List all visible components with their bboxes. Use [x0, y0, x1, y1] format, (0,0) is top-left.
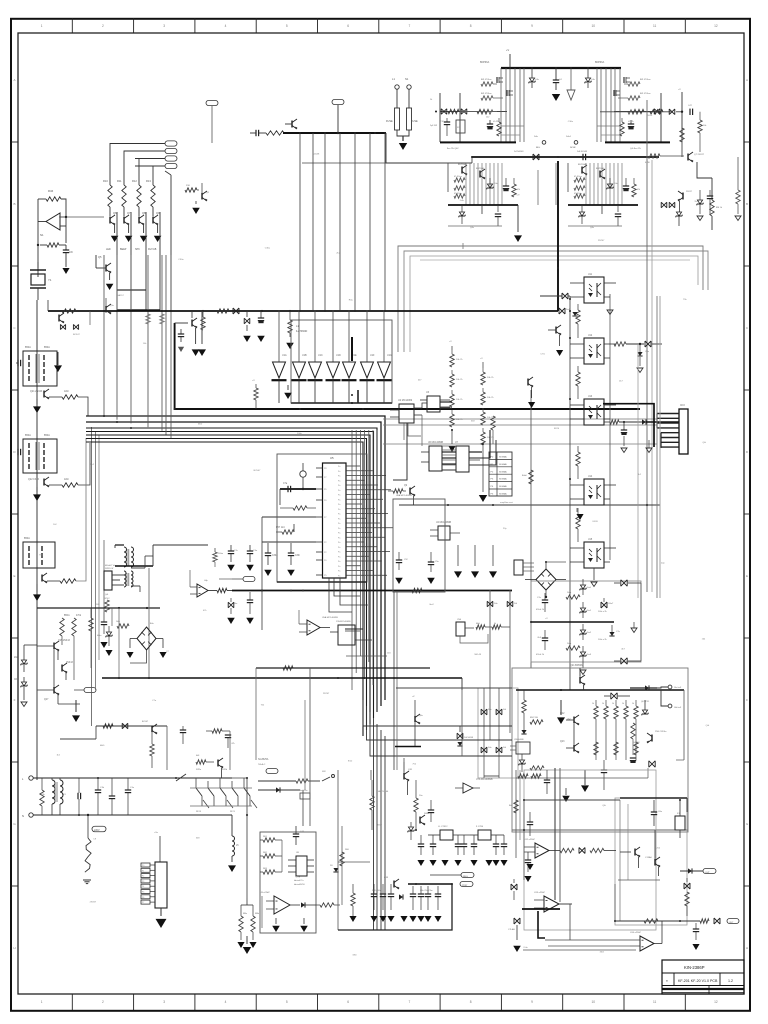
- IC U8b box: [338, 625, 355, 645]
- svg-text:U2 MC14069: U2 MC14069: [398, 399, 413, 402]
- svg-text:CN3: CN3: [680, 405, 685, 407]
- cell2 bottom bus: [448, 204, 518, 206]
- opto4 arrows: [576, 508, 578, 512]
- gnd arrows lower G17: [349, 916, 356, 922]
- bowtie X72: [684, 883, 690, 889]
- cell bottom bus: [451, 141, 516, 143]
- svg-text:10k 7k: 10k 7k: [487, 397, 494, 399]
- svg-text:C7a: C7a: [283, 483, 288, 485]
- transistor Q8: [138, 207, 140, 216]
- open gnd right: [631, 628, 637, 633]
- gate U7A: [463, 783, 473, 793]
- svg-text:SIGNAL: SIGNAL: [499, 470, 508, 473]
- svg-text:B50A: B50A: [24, 537, 30, 540]
- svg-text:8W 47Ohm: 8W 47Ohm: [481, 79, 492, 81]
- resistor RL5: [73, 664, 75, 680]
- ground arrows under drivers: [114, 225, 116, 233]
- top connections G17: [370, 770, 372, 780]
- svg-text:D4t N4148: D4t N4148: [577, 150, 588, 153]
- opto3 cap filled: [623, 422, 625, 430]
- thick bus G17: [408, 883, 452, 885]
- opto5 resistor left: [576, 515, 580, 529]
- svg-text:3: 3: [163, 24, 165, 28]
- svg-text:BDP96A: BDP96A: [458, 163, 466, 166]
- side wire to right block: [386, 133, 430, 163]
- svg-text:U15: U15: [588, 539, 593, 541]
- loop top transistor: [191, 320, 193, 327]
- svg-text:kdvim8 7a: kdvim8 7a: [294, 880, 304, 882]
- left branch resistor: [90, 608, 92, 618]
- cell2 verticals: [465, 163, 467, 205]
- svg-text:C8a C9a C9m: C8a C9a C9m: [420, 890, 433, 892]
- svg-text:2N5 C8V4a: 2N5 C8V4a: [655, 731, 667, 733]
- bowtie X73: [714, 918, 720, 924]
- CN6 lower jog: [460, 634, 488, 643]
- ladder C: [492, 430, 494, 444]
- terminal N: [29, 813, 33, 817]
- svg-text:U13 a22bP: U13 a22bP: [534, 892, 545, 894]
- svg-text:1: 1: [41, 1000, 43, 1004]
- svg-text:10k 7k: 10k 7k: [456, 399, 463, 401]
- connector CN5: [514, 560, 523, 575]
- input wires U14: [570, 939, 630, 941]
- svg-text:B: B: [746, 202, 748, 206]
- cell2 res right: [633, 178, 635, 184]
- svg-text:U13: U13: [588, 396, 593, 398]
- inner verticals G14: [683, 690, 685, 760]
- svg-text:R10: R10: [103, 179, 108, 183]
- svg-text:6: 6: [347, 24, 349, 28]
- svg-text:100r a 2k: 100r a 2k: [598, 638, 608, 641]
- svg-text:N4148: N4148: [633, 742, 640, 744]
- res v G18 left: [514, 800, 518, 813]
- svg-text:F: F: [14, 698, 16, 702]
- right res 10k: [699, 112, 701, 120]
- svg-text:8: 8: [470, 1000, 472, 1004]
- svg-text:2N747: 2N747: [686, 191, 693, 193]
- right caps cluster: [214, 548, 216, 552]
- transformer T1: [23, 351, 57, 386]
- resistor RZ1: [566, 595, 580, 599]
- svg-text:KF20: KF20: [593, 521, 599, 523]
- bowtie XR2: [621, 658, 627, 664]
- right cluster bowties: [661, 202, 667, 208]
- U14 input long wires: [545, 939, 570, 941]
- cell2 stub down: [481, 205, 483, 214]
- diode DG: [301, 902, 305, 907]
- resistor 8m1k: [477, 109, 489, 113]
- zener ZPSU: [108, 626, 110, 632]
- main top bus: [501, 67, 621, 69]
- svg-text:U6A MC14069B: U6A MC14069B: [396, 494, 412, 497]
- mid thick wire: [531, 621, 614, 623]
- svg-text:Q21 BD546: Q21 BD546: [570, 664, 583, 667]
- svg-text:BEEP: BEEP: [120, 248, 127, 251]
- svg-text:1k: 1k: [622, 703, 624, 705]
- svg-text:C30a: C30a: [568, 121, 574, 123]
- G18a internal verticals: [619, 800, 621, 921]
- switch SW1: [322, 777, 330, 781]
- transistor Q7: [123, 207, 125, 216]
- thick line y678: [102, 677, 462, 679]
- cell verticals: [619, 68, 621, 142]
- bowtie X75: [514, 918, 520, 924]
- svg-text:SIGNAL: SIGNAL: [499, 478, 508, 481]
- h wires from bundle to opto: [512, 310, 558, 312]
- svg-text:R88 C90a: R88 C90a: [372, 890, 382, 892]
- cell2 zener: [609, 178, 611, 184]
- svg-text:2pF 5W: 2pF 5W: [430, 125, 437, 127]
- svg-text:J4b keX: J4b keX: [674, 707, 682, 709]
- svg-text:KF-201 KF-20 V1.0 PCB: KF-201 KF-20 V1.0 PCB: [678, 979, 718, 983]
- svg-text:C7m: C7m: [253, 550, 258, 552]
- resistor R71: [590, 848, 604, 852]
- optocoupler U13: [584, 399, 604, 425]
- bridge wires: [130, 638, 137, 640]
- optocoupler U15: [584, 542, 604, 568]
- cell bottom bus: [605, 141, 670, 143]
- resistor RV: [40, 790, 44, 806]
- svg-text:C6a: C6a: [14, 679, 19, 681]
- thick arrow G14b: [581, 785, 589, 792]
- svg-text:66kL: 66kL: [476, 623, 480, 625]
- bubble OUT2: [703, 869, 716, 874]
- box squiggle bottom: [412, 588, 422, 592]
- wire mesh under array: [117, 309, 160, 311]
- op-amp N1: [46, 213, 60, 230]
- opto rail right: [609, 300, 611, 560]
- fuse join wire: [397, 130, 409, 136]
- junction dots on buses: [299, 310, 301, 312]
- relay contact row2: [203, 800, 209, 808]
- mosfet Q upper: [623, 77, 625, 83]
- caps row W: [180, 729, 186, 731]
- svg-text:5: 5: [286, 24, 288, 28]
- wire to bubbles: [430, 874, 461, 876]
- inner top bus: [516, 689, 684, 691]
- bowtie XR1: [621, 580, 627, 586]
- svg-text:ILA7060iD: ILA7060iD: [296, 330, 307, 333]
- resistor RC2: [289, 311, 291, 320]
- big cap filled: [630, 120, 632, 124]
- G18a h-line y880: [618, 879, 660, 881]
- transistor Q9L: [527, 379, 529, 386]
- U14 long input: [523, 949, 636, 951]
- bowtie X4: [559, 308, 565, 314]
- svg-text:Q4t: Q4t: [706, 724, 710, 727]
- svg-text:Vt 47k: Vt 47k: [628, 120, 634, 123]
- svg-text:PRST: PRST: [462, 885, 468, 887]
- box U6A region: [393, 499, 445, 592]
- res stack in G16: [263, 838, 275, 842]
- bus y311 left cluster: [62, 309, 76, 313]
- svg-text:47 4Ohm: 47 4Ohm: [574, 176, 582, 178]
- opto U20: [516, 742, 530, 754]
- IC U7: [456, 446, 469, 472]
- left side thick line y489: [280, 488, 316, 490]
- stage2 bowtie: [533, 154, 539, 160]
- resistor ladder A: [451, 350, 453, 354]
- cap CL3: [101, 621, 107, 623]
- svg-text:U6 MC14069B: U6 MC14069B: [428, 442, 444, 444]
- junction node: [37, 244, 39, 246]
- opto1 ground: [609, 294, 611, 300]
- U2 bottom elbow: [393, 423, 407, 480]
- h-line y542: [262, 541, 316, 543]
- signal table: [489, 452, 512, 496]
- svg-text:Q4t: Q4t: [105, 593, 109, 596]
- svg-text:9 C780: 9 C780: [476, 826, 484, 828]
- emitter resistor: [498, 118, 500, 122]
- svg-text:BDP96A: BDP96A: [595, 61, 605, 64]
- power cell rail: [660, 93, 662, 142]
- svg-text:100m: 100m: [218, 553, 223, 555]
- svg-text:OUT: OUT: [729, 922, 734, 924]
- stage2 cell body: [447, 163, 449, 192]
- left reference strip ticks: [11, 141, 18, 143]
- svg-text:P1: P1: [142, 870, 144, 872]
- right vertical of box: [640, 583, 642, 661]
- svg-text:N4148: N4148: [313, 153, 320, 155]
- cell inner h-links: [501, 125, 524, 127]
- cap top G16: [293, 833, 299, 835]
- svg-text:R13: R13: [146, 179, 151, 183]
- right descender: [711, 178, 713, 200]
- resistor RA2: [49, 484, 62, 486]
- transistor QB4: [651, 735, 653, 742]
- capacitor C41: [17, 449, 19, 455]
- U6-U7 thick links: [442, 451, 456, 453]
- bundle lower fan: [363, 700, 398, 726]
- diode matrix box: [478, 688, 518, 778]
- left cluster of G14: [522, 700, 526, 713]
- svg-text:R46: R46: [48, 189, 54, 193]
- big loop wire: [175, 323, 640, 409]
- svg-text:Q7 2N747: Q7 2N747: [694, 154, 705, 156]
- svg-text:1k: 1k: [602, 703, 604, 705]
- svg-text:U14: U14: [588, 476, 593, 478]
- svg-text:D4t: D4t: [503, 708, 506, 711]
- ground arrow: [62, 268, 69, 274]
- resistor R1k6: [117, 624, 129, 628]
- svg-text:C9: C9: [69, 250, 73, 254]
- transformer wires: [115, 544, 124, 546]
- bundle left risers: [103, 255, 105, 416]
- svg-text:47k: 47k: [637, 189, 640, 191]
- resistor ladder B: [482, 368, 484, 372]
- transistor Q7 right: [687, 154, 689, 161]
- svg-text:Q23: Q23: [560, 741, 565, 743]
- connector CN3: [679, 409, 688, 454]
- resistor column mid: [60, 618, 64, 636]
- lower passive row G17: [351, 893, 355, 906]
- buffer U1C: [314, 310, 316, 362]
- svg-text:B50A: B50A: [64, 614, 70, 617]
- thick line y668 segment: [256, 667, 430, 669]
- stage2 ground arrow: [517, 205, 519, 232]
- cap CC1: [260, 311, 262, 318]
- opamp Z output: [208, 590, 217, 592]
- res 4a7: [300, 793, 310, 799]
- svg-text:FUSE: FUSE: [411, 120, 418, 123]
- svg-text:47 4Ohm: 47 4Ohm: [454, 193, 462, 195]
- gate resistor rows: [481, 82, 493, 86]
- bowtie XB1: [611, 693, 617, 699]
- svg-text:2N343: 2N343: [66, 662, 73, 664]
- small parts right: [333, 868, 338, 872]
- cell verticals: [500, 68, 502, 142]
- left stack caps: [446, 118, 448, 122]
- caps x430: [428, 809, 434, 811]
- svg-text:SIGNAL: SIGNAL: [499, 485, 508, 488]
- bowtie X70: [579, 848, 585, 854]
- matrix rails: [483, 688, 485, 778]
- gate resistor rows: [628, 82, 640, 86]
- vert rail G16: [261, 896, 263, 928]
- zener bottom wire: [582, 662, 584, 668]
- svg-text:8W 47Ohm: 8W 47Ohm: [640, 79, 651, 81]
- buffer U1B: [298, 310, 300, 362]
- svg-text:SG3525A: SG3525A: [258, 758, 269, 761]
- svg-text:N4148: N4148: [474, 654, 481, 656]
- U8b box bottom wire: [346, 655, 387, 657]
- cap C5: [255, 130, 257, 136]
- cell input wire: [460, 111, 507, 113]
- mosfet Q upper: [496, 77, 498, 83]
- svg-text:KIN-2386P: KIN-2386P: [684, 965, 705, 970]
- svg-text:RLY/AB: RLY/AB: [148, 248, 157, 251]
- resistor R74: [700, 919, 709, 923]
- bowtie on bus: [233, 308, 239, 314]
- svg-text:Q25 2N343: Q25 2N343: [58, 640, 70, 642]
- svg-text:1k6r: 1k6r: [567, 642, 572, 645]
- top node wire: [545, 562, 547, 569]
- bubble PRST: [460, 882, 473, 887]
- transistor BDP A: [581, 167, 583, 174]
- resistor 8m1k: [632, 109, 644, 113]
- relay contact matrix: [195, 778, 197, 788]
- bowtie cap XZ: [601, 602, 607, 608]
- cell2 below bus parts: [581, 205, 583, 212]
- cap C7: [287, 486, 289, 492]
- cell2 below bus parts: [461, 205, 463, 212]
- svg-text:Q4t: Q4t: [702, 441, 706, 444]
- junction dots scatter: [337, 132, 339, 134]
- svg-text:LED: LED: [106, 248, 111, 251]
- resistor R73: [644, 919, 658, 923]
- transistor QA3: [41, 575, 43, 582]
- svg-text:4a7-10a: 4a7-10a: [300, 790, 308, 792]
- svg-text:8m 47k Q4V: 8m 47k Q4V: [447, 148, 459, 150]
- svg-text:U9 a22bP: U9 a22bP: [260, 892, 270, 894]
- thick rails x555: [554, 768, 556, 900]
- long vertical wire: [170, 175, 172, 310]
- transistor BDP B: [479, 171, 481, 178]
- cell2 verticals: [585, 163, 587, 205]
- vertical feeds G18: [569, 904, 571, 940]
- resistor R50 on bus: [217, 309, 229, 313]
- AC h-line top: [33, 777, 232, 779]
- mid column x342: [341, 826, 343, 905]
- second resistor row: [594, 742, 598, 755]
- gate resistor rows 2: [454, 178, 465, 182]
- svg-text:9: 9: [531, 24, 533, 28]
- h-line y517: [262, 516, 316, 518]
- stage2 right cluster: [682, 193, 684, 200]
- right rail resistor: [680, 128, 684, 142]
- cluster row2: [228, 602, 234, 608]
- svg-text:B52 5W: B52 5W: [530, 717, 539, 719]
- svg-text:SIGNAL: SIGNAL: [499, 456, 508, 459]
- svg-text:BLU: BLU: [536, 147, 541, 149]
- svg-text:N1: N1: [405, 77, 409, 81]
- svg-text:8M 1k: 8M 1k: [716, 207, 723, 209]
- X caps: [77, 793, 79, 799]
- h-line y921 chain: [615, 920, 700, 922]
- right reference strip ticks: [744, 141, 750, 143]
- thick mid bus y311: [48, 310, 512, 312]
- svg-text:P3: P3: [142, 881, 144, 883]
- left entry wires: [439, 93, 441, 142]
- svg-text:7k1A-C: 7k1A-C: [258, 763, 266, 766]
- right cap C47: [689, 109, 691, 115]
- below box arrows: [246, 936, 248, 944]
- svg-text:KF20: KF20: [554, 428, 560, 430]
- svg-text:REG: REG: [463, 876, 468, 878]
- right rail +V: [681, 92, 683, 142]
- right vertical with coil: [231, 815, 233, 836]
- right descender2: [737, 157, 739, 190]
- svg-text:J4a keX: J4a keX: [674, 687, 682, 689]
- zener ZH1: [408, 827, 413, 831]
- svg-text:Q22 C336: Q22 C336: [28, 478, 40, 481]
- svg-text:680uF/7 k-k: 680uF/7 k-k: [105, 565, 116, 567]
- cap C70: [525, 859, 531, 861]
- bubble OUT: [727, 919, 739, 924]
- svg-text:8W 47Ohm: 8W 47Ohm: [640, 93, 651, 95]
- resistor RO2v: [576, 310, 580, 324]
- mid transistors: [573, 717, 575, 724]
- resistor R70: [560, 848, 574, 852]
- thick arrow B: [201, 311, 203, 344]
- svg-text:SIGNAL: SIGNAL: [499, 463, 508, 466]
- svg-text:10k 7k: 10k 7k: [456, 419, 463, 421]
- thick line y746: [395, 746, 421, 748]
- resistor R55: [279, 489, 281, 505]
- thick elbow: [351, 337, 353, 361]
- cap C73: [693, 928, 699, 930]
- svg-text:8W 47Ohm: 8W 47Ohm: [481, 93, 492, 95]
- svg-text:D4 N4148: D4 N4148: [514, 151, 524, 153]
- PSU controller box: [104, 571, 112, 590]
- U3 right thick wires: [440, 401, 452, 403]
- transistor QB big: [579, 677, 581, 684]
- left vertical rail: [36, 300, 38, 780]
- riser squiggles: [146, 314, 150, 324]
- optocoupler U12: [584, 338, 604, 364]
- svg-text:amplifier-sect: amplifier-sect: [500, 501, 513, 504]
- svg-text:2: 2: [102, 24, 104, 28]
- resistor RA1: [49, 396, 62, 398]
- left edge links to bundle: [430, 755, 512, 757]
- bus riser +V: [509, 54, 511, 68]
- svg-text:B50A: B50A: [44, 434, 50, 437]
- plug terminal J2: [407, 85, 411, 89]
- mosfet Q lower: [506, 90, 508, 96]
- bowtie diode mid: [457, 733, 463, 739]
- thick bus y403 box bottom: [291, 402, 392, 404]
- fuse F2: [408, 89, 410, 108]
